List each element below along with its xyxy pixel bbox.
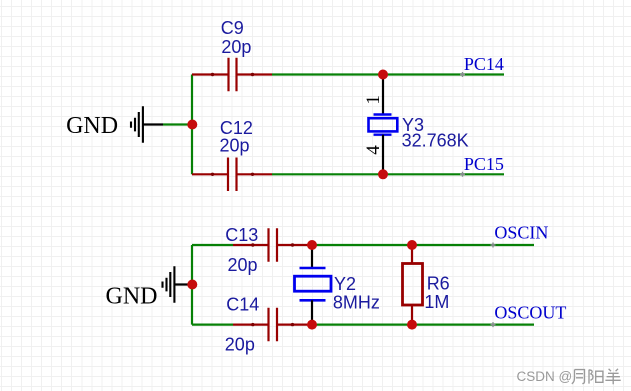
- node junction OSCOUT / R6 pin 2: [407, 320, 417, 330]
- capacitor C9: [192, 58, 272, 91]
- svg-text:20p: 20p: [225, 335, 255, 355]
- svg-text:4: 4: [363, 145, 384, 155]
- svg-text:OSCOUT: OSCOUT: [494, 303, 566, 323]
- node junction PC14 / Y3 pin 1: [378, 70, 388, 80]
- svg-text:1: 1: [363, 95, 384, 105]
- svg-text:20p: 20p: [221, 37, 251, 57]
- wire vertical net stub OSCIN-OSCOUT: [191, 245, 193, 325]
- svg-text:C13: C13: [225, 225, 258, 245]
- svg-text:OSCIN: OSCIN: [494, 223, 548, 243]
- svg-text:20p: 20p: [228, 255, 258, 275]
- svg-text:PC15: PC15: [464, 154, 504, 174]
- svg-text:R6: R6: [427, 274, 450, 294]
- crystal Y3: [369, 75, 398, 175]
- svg-text:1M: 1M: [424, 292, 449, 312]
- wire C9 to PC14 end (net PC14): [272, 73, 504, 75]
- node junction OSCIN / Y2 pin 1: [307, 240, 317, 250]
- wire corner to C13 (green): [192, 244, 233, 246]
- wire C12 to PC15 end (net PC15): [272, 173, 504, 175]
- net anchor tick OSCIN: [491, 243, 496, 248]
- node junction PC15 / Y3 pin 4: [378, 169, 388, 179]
- svg-text:GND: GND: [66, 113, 118, 139]
- ground stem wire (black): [143, 123, 163, 125]
- wire GND to junction (green): [163, 123, 192, 125]
- net anchor tick PC15: [460, 172, 465, 177]
- svg-text:CSDN @: CSDN @: [517, 369, 573, 384]
- wire C13 to OSCIN end (net OSCIN): [312, 244, 534, 246]
- watermark CSDN @月阳羊: [517, 369, 621, 384]
- capacitor C12: [192, 158, 272, 192]
- resistor R6: [403, 245, 423, 325]
- svg-text:GND: GND: [106, 284, 158, 310]
- node junction at GND (bottom circuit): [187, 280, 197, 290]
- node junction at GND (top circuit): [187, 120, 197, 130]
- crystal Y2: [295, 245, 332, 325]
- ground symbol (top circuit): [131, 106, 143, 143]
- svg-text:20p: 20p: [220, 136, 250, 156]
- capacitor C14: [233, 308, 312, 342]
- node junction OSCOUT / Y2 pin 2: [307, 320, 317, 330]
- capacitor C13: [233, 228, 312, 262]
- ground stem wire (bottom circuit): [174, 283, 192, 285]
- wire corner to C14 (green): [192, 324, 233, 326]
- svg-text:8MHz: 8MHz: [333, 292, 380, 312]
- node junction OSCIN / R6 pin 1: [407, 240, 417, 250]
- svg-text:Y2: Y2: [334, 274, 356, 294]
- net anchor tick OSCOUT: [491, 322, 496, 327]
- svg-text:C9: C9: [221, 18, 244, 38]
- ground symbol (bottom circuit): [163, 266, 175, 303]
- svg-text:C14: C14: [226, 295, 259, 315]
- svg-text:PC14: PC14: [464, 54, 504, 74]
- wire vertical net stub PC14-PC15: [191, 75, 193, 175]
- net anchor tick PC14: [460, 72, 465, 77]
- wire C14 to OSCOUT end (net OSCOUT): [312, 324, 534, 326]
- svg-text:32.768K: 32.768K: [402, 130, 469, 150]
